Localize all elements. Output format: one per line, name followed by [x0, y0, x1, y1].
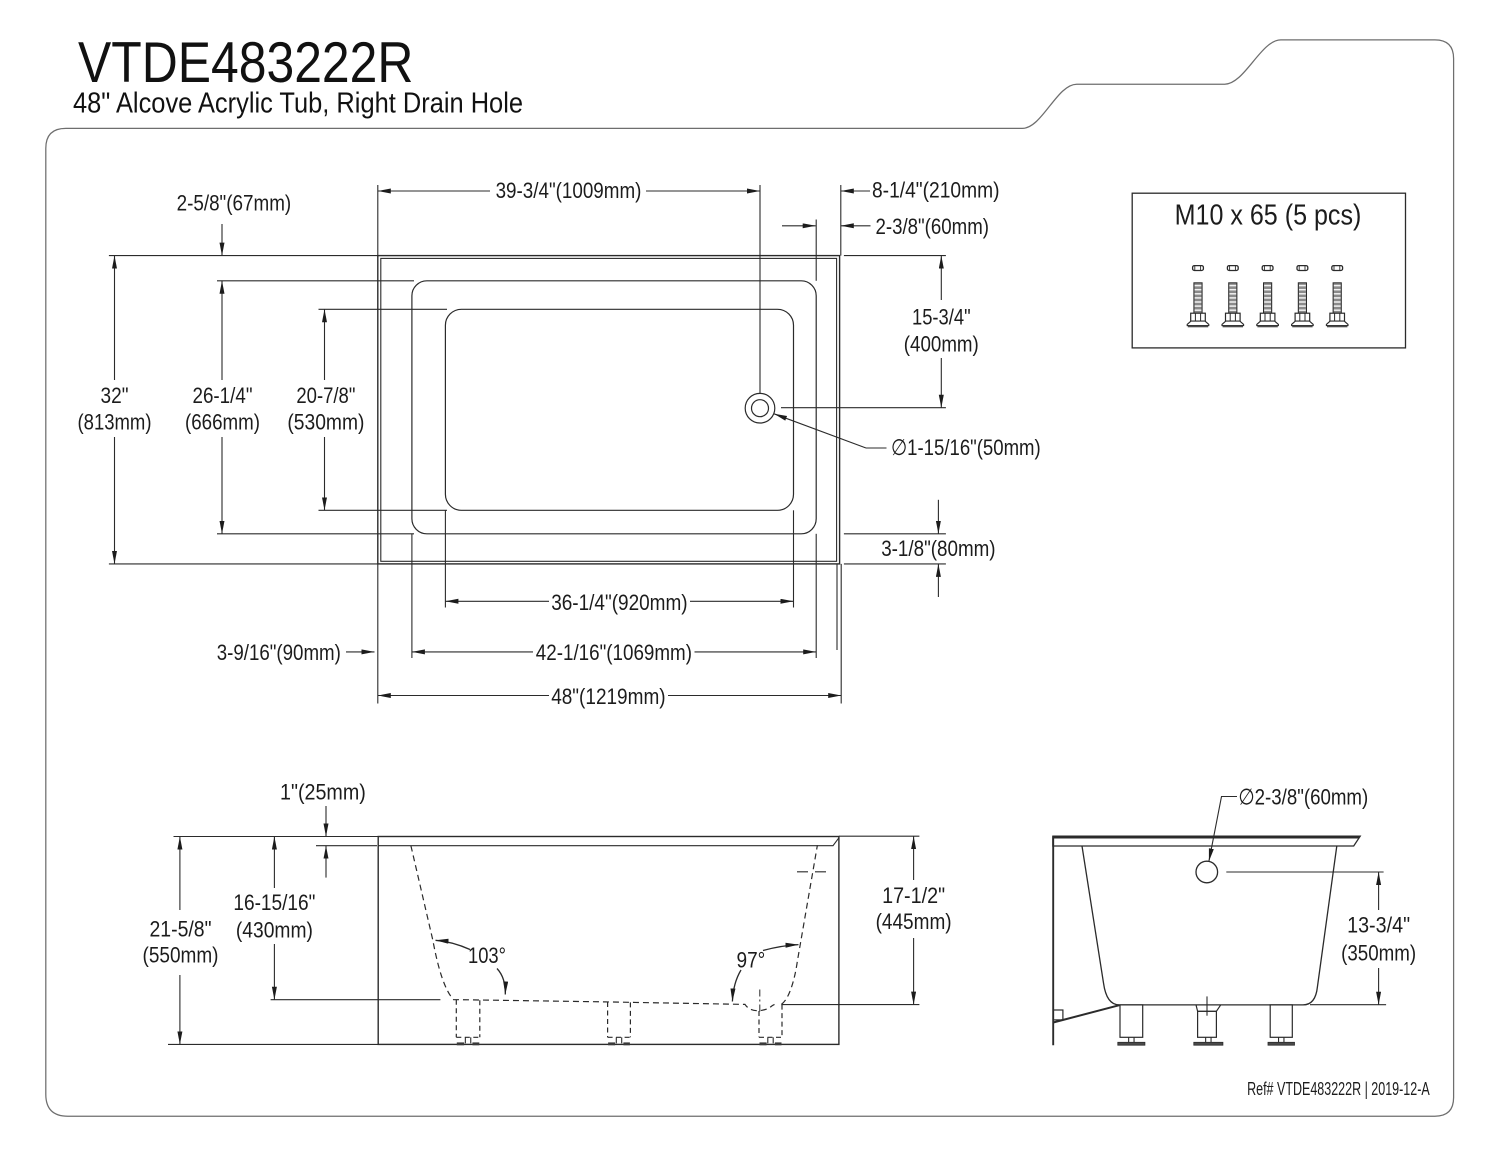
svg-text:21-5/8": 21-5/8"	[150, 917, 212, 942]
svg-text:(445mm): (445mm)	[876, 909, 952, 934]
end view tub body	[1082, 846, 1337, 1005]
side view outer rect	[378, 837, 839, 1045]
svg-text:103°: 103°	[468, 943, 506, 968]
end view rim band	[1053, 836, 1360, 846]
overflow leader	[1209, 797, 1237, 862]
overflow hole circle	[1196, 861, 1218, 883]
svg-text:2-5/8"(67mm): 2-5/8"(67mm)	[177, 191, 292, 216]
svg-text:17-1/2": 17-1/2"	[882, 883, 945, 908]
bolt 1	[1187, 266, 1209, 328]
side view right wall (dashed)	[782, 845, 818, 1004]
dimension 17-1/2"(445mm)	[913, 836, 915, 880]
svg-text:(666mm): (666mm)	[185, 410, 260, 435]
svg-text:48" Alcove Acrylic Tub, Right: 48" Alcove Acrylic Tub, Right Drain Hole	[73, 88, 523, 120]
svg-text:39-3/4"(1009mm): 39-3/4"(1009mm)	[496, 178, 642, 203]
end view apron diagonal	[1053, 1005, 1119, 1022]
top view: rim rounded rect	[412, 281, 816, 534]
dimension 21-5/8"(550mm)	[179, 837, 181, 911]
side view overflow tick	[797, 871, 827, 873]
bolt 3	[1257, 266, 1279, 328]
drain hole outer circle	[745, 393, 775, 423]
svg-text:97°: 97°	[737, 948, 766, 973]
dimension 1"(25mm)	[325, 806, 327, 837]
drain hole inner circle	[752, 400, 769, 417]
dimension 3-9/16"(90mm)	[346, 651, 375, 653]
svg-text:VTDE483222R: VTDE483222R	[78, 31, 413, 95]
end view foot 3	[1270, 1005, 1292, 1037]
dimension 3-1/8"(80mm)	[937, 500, 939, 534]
top view: tub outer rect	[378, 256, 840, 564]
dimension 48"(1219mm)	[378, 695, 549, 697]
angle 103 deg	[436, 940, 471, 949]
dimension 2-5/8"(67mm)	[221, 224, 223, 256]
svg-text:3-9/16"(90mm): 3-9/16"(90mm)	[217, 640, 341, 665]
side view dims: extension lines	[174, 836, 379, 838]
side view foot 3 (dashed)	[758, 1011, 760, 1037]
end view drain center tick	[1206, 996, 1208, 1015]
dimension 39-3/4"(1009mm)	[378, 190, 490, 192]
svg-text:20-7/8": 20-7/8"	[296, 383, 355, 408]
svg-text:(400mm): (400mm)	[904, 332, 979, 357]
svg-text:Ref# VTDE483222R | 2019-12-A: Ref# VTDE483222R | 2019-12-A	[1247, 1079, 1430, 1099]
M10 x 65 parts box	[1132, 193, 1405, 348]
svg-text:36-1/4"(920mm): 36-1/4"(920mm)	[551, 590, 687, 615]
svg-text:1"(25mm): 1"(25mm)	[280, 779, 366, 804]
svg-text:8-1/4"(210mm): 8-1/4"(210mm)	[872, 178, 1000, 203]
svg-text:(350mm): (350mm)	[1341, 941, 1416, 966]
svg-text:48"(1219mm): 48"(1219mm)	[551, 684, 665, 709]
dimension 32"(813mm)	[114, 256, 116, 380]
dimension 13-3/4"(350mm)	[1226, 871, 1383, 873]
drain leader and label	[866, 447, 887, 449]
svg-text:(430mm): (430mm)	[236, 918, 313, 943]
svg-text:16-15/16": 16-15/16"	[233, 890, 315, 915]
dimension 42-1/16"(1069mm)	[412, 651, 533, 653]
svg-text:2-3/8"(60mm): 2-3/8"(60mm)	[876, 214, 990, 239]
drain center line (side)	[759, 990, 761, 1015]
bolt 4	[1292, 266, 1314, 328]
extension lines top view	[109, 255, 378, 257]
svg-text:3-1/8"(80mm): 3-1/8"(80mm)	[881, 536, 995, 561]
svg-text:26-1/4": 26-1/4"	[193, 383, 253, 408]
svg-text:(530mm): (530mm)	[287, 410, 364, 435]
end view apron notch	[1053, 1010, 1063, 1020]
svg-text:(550mm): (550mm)	[143, 942, 219, 967]
svg-text:15-3/4": 15-3/4"	[912, 304, 971, 329]
svg-text:∅1-15/16"(50mm): ∅1-15/16"(50mm)	[891, 435, 1041, 460]
side view foot 2 (dashed)	[607, 1002, 609, 1037]
dimension 2-3/8"(60mm)	[782, 225, 816, 227]
end view left apron line	[1052, 836, 1054, 1045]
svg-text:42-1/16"(1069mm): 42-1/16"(1069mm)	[536, 640, 692, 665]
side view rim inner line	[378, 838, 839, 846]
side view bottom right solid line	[781, 1004, 839, 1006]
svg-text:(813mm): (813mm)	[78, 410, 152, 435]
svg-text:M10 x 65 (5 pcs): M10 x 65 (5 pcs)	[1175, 200, 1362, 232]
svg-text:13-3/4": 13-3/4"	[1347, 913, 1410, 938]
side view foot 1 (dashed)	[455, 1000, 457, 1038]
dimension 15-3/4"(400mm)	[940, 256, 942, 300]
dimension 26-1/4"(666mm)	[221, 281, 223, 380]
dimension 20-7/8"(530mm)	[324, 309, 326, 380]
end view foot 2	[1196, 1005, 1221, 1011]
svg-text:32": 32"	[101, 383, 129, 408]
end view foot 1	[1120, 1005, 1143, 1037]
top view: tub inner offset rect	[381, 258, 837, 561]
svg-text:∅2-3/8"(60mm): ∅2-3/8"(60mm)	[1238, 785, 1368, 810]
bolt 2	[1222, 266, 1244, 328]
side view interior profile (dashed)	[411, 846, 775, 1011]
top view: basin rounded rect	[445, 309, 793, 510]
bolt 5	[1326, 266, 1348, 328]
dimension 36-1/4"(920mm)	[445, 600, 549, 602]
angle 97 deg	[763, 945, 799, 951]
dimension 16-15/16"(430mm)	[273, 837, 275, 889]
dimension 8-1/4"(210mm)	[841, 190, 870, 192]
